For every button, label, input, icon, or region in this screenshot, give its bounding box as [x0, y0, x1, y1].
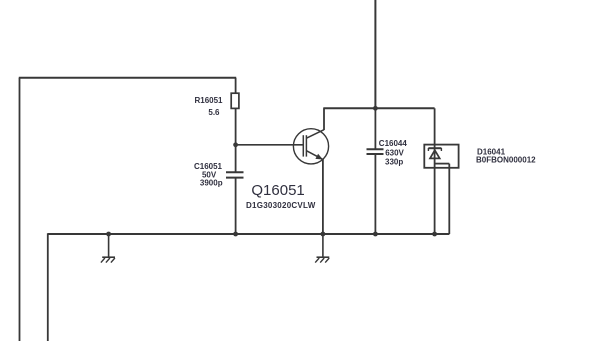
svg-text:B0FBON000012: B0FBON000012: [476, 155, 536, 164]
node ground stem A junction: [106, 232, 111, 237]
wire R16051 bottom lead to C16051: [235, 108, 237, 172]
svg-text:C16044: C16044: [379, 139, 408, 148]
wire D16041 second pin jog: [435, 163, 450, 165]
wire D16041 cathode lead and through lead: [434, 108, 436, 234]
svg-text:330p: 330p: [385, 158, 403, 167]
node C16051 on ground bus: [233, 232, 238, 237]
node emitter junction on ground bus: [321, 232, 326, 237]
diode D16041 package box: [424, 145, 458, 168]
capacitor C16044: [367, 149, 384, 154]
wire top-left horizontal to R16051: [19, 77, 236, 79]
wire C16044 top lead: [374, 108, 376, 149]
node base junction: [233, 142, 238, 147]
ground: [101, 234, 115, 263]
wire base of Q16051: [236, 144, 304, 146]
transistor Q16051: [293, 129, 328, 164]
svg-text:3900p: 3900p: [200, 178, 223, 187]
wire bottom-left vertical: [47, 233, 49, 341]
diode D16041 zener symbol: [428, 148, 441, 158]
ground: [315, 234, 329, 263]
wire collector bus horizontal: [323, 107, 434, 109]
capacitor C16051: [226, 172, 244, 177]
wire bottom ground bus: [48, 233, 450, 235]
node feed junction: [373, 106, 378, 111]
svg-text:630V: 630V: [385, 149, 404, 158]
wire emitter of Q16051: [322, 159, 324, 234]
svg-text:5.6: 5.6: [208, 108, 220, 117]
node D16041 on ground bus: [432, 232, 437, 237]
node C16044 on ground bus: [373, 232, 378, 237]
svg-text:Q16051: Q16051: [251, 182, 304, 199]
svg-text:D1G303020CVLW: D1G303020CVLW: [246, 201, 316, 210]
svg-text:R16051: R16051: [194, 96, 223, 105]
wire supply feed vertical from top edge: [374, 0, 376, 108]
resistor R16051: [231, 93, 239, 108]
wire left vertical bus: [19, 78, 21, 341]
wire C16051 bottom lead: [235, 178, 237, 234]
wire R16051 top lead: [235, 78, 237, 94]
wire collector of Q16051: [323, 108, 325, 130]
wire C16044 bottom lead: [374, 154, 376, 234]
